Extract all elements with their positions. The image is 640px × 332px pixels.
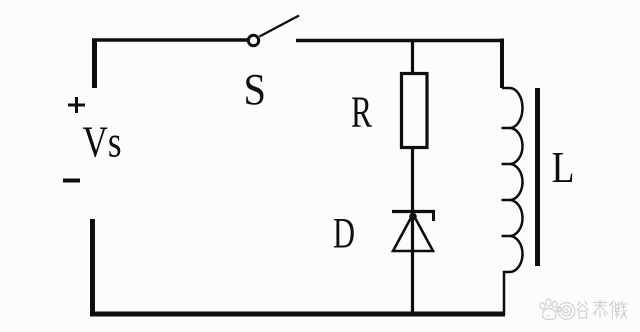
watermark paw icon bbox=[539, 299, 562, 320]
inductor core bar bbox=[535, 88, 540, 266]
source minus sign bbox=[63, 179, 80, 183]
diode D cathode bar bbox=[392, 210, 435, 213]
watermark @ sign bbox=[558, 303, 575, 320]
wire left bottom stub bbox=[90, 219, 95, 316]
resistor R body bbox=[402, 74, 428, 148]
wire R branch top bbox=[411, 40, 414, 74]
watermark hanzi wei bbox=[609, 301, 627, 319]
diode D triangle bbox=[393, 214, 433, 251]
inductor cusp tick 1 bbox=[502, 127, 510, 130]
svg-text:Vs: Vs bbox=[83, 118, 122, 167]
wire right vertical stub bbox=[500, 39, 504, 89]
svg-text:R: R bbox=[351, 88, 372, 137]
svg-text:L: L bbox=[552, 143, 575, 192]
inductor cusp tick 2 bbox=[502, 163, 510, 166]
wire left top stub bbox=[92, 39, 97, 89]
svg-text:S: S bbox=[244, 65, 267, 114]
diode junction dot bbox=[409, 213, 417, 221]
source plus sign bbox=[68, 97, 85, 113]
inductor cusp tick 3 bbox=[502, 199, 510, 202]
diode D cathode right tick bbox=[432, 212, 435, 222]
wire top-right horizontal bbox=[296, 39, 504, 43]
switch S blade bbox=[260, 16, 300, 37]
watermark hanzi tai bbox=[593, 300, 608, 319]
watermark hanzi gu bbox=[577, 301, 589, 318]
switch S pivot circle bbox=[248, 35, 258, 45]
inductor L coil bbox=[502, 88, 523, 315]
svg-text:D: D bbox=[333, 211, 355, 258]
watermark group bbox=[539, 299, 627, 320]
wire top-left horizontal bbox=[92, 38, 248, 42]
wire R to diode and down bbox=[411, 147, 414, 316]
wire bottom horizontal bbox=[90, 312, 505, 317]
inductor cusp tick 4 bbox=[502, 235, 510, 238]
